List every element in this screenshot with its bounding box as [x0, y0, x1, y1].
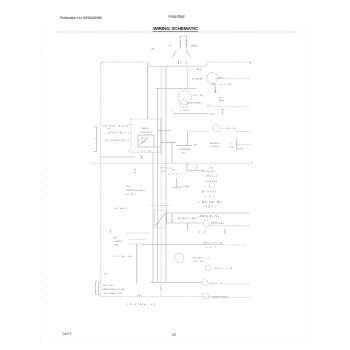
svg-text:+ (111) L: + (111) L	[180, 110, 191, 112]
ice maker dashed row 2	[128, 239, 146, 241]
svg-text:+ YR: + YR	[171, 170, 176, 172]
svg-text:WH-B4: WH-B4	[206, 171, 216, 173]
svg-text:TC-L+ 4: TC-L+ 4	[210, 282, 223, 284]
svg-text:W-4+4+: W-4+4+	[202, 191, 217, 193]
svg-text:F: F	[230, 143, 232, 145]
overload protector leads	[180, 36, 186, 49]
svg-text:WH + A 4: WH + A 4	[103, 284, 115, 287]
defrost thermostat arrow	[181, 185, 189, 187]
wire dashed run y78 right	[216, 77, 251, 79]
svg-text:WIRING SCHEMATIC: WIRING SCHEMATIC	[153, 26, 199, 32]
wire horizontal run y171	[187, 170, 202, 172]
svg-text:(5M)+ 4(+)+ W-L: (5M)+ 4(+)+ W-L	[211, 84, 234, 86]
condenser fan motor circle	[213, 124, 221, 132]
svg-text:+4+: +4+	[205, 186, 215, 188]
header rule dashed	[57, 31, 297, 33]
line cord strain relief right diagonal	[186, 50, 191, 58]
wire vertical segment D	[187, 223, 189, 230]
connector plug J1	[237, 139, 243, 151]
svg-text:4+4: 4+4	[104, 273, 108, 275]
svg-text:HARDWISE IT 4 WH: HARDWISE IT 4 WH	[103, 288, 126, 291]
wire vertical bus 2	[152, 153, 154, 283]
svg-text:+MP-3 DF 4-W: +MP-3 DF 4-W	[202, 243, 222, 245]
svg-text:NH-4: NH-4	[219, 100, 225, 102]
wire vertical segment B	[171, 213, 173, 223]
lamp circle right	[205, 265, 211, 271]
trim mark bottom dotted	[40, 340, 311, 342]
trim mark left dotted	[39, 29, 41, 341]
svg-text:+(4)+A+: +(4)+A+	[205, 180, 218, 183]
svg-text:+ T41: + T41	[208, 168, 214, 170]
wire dashed run y205	[150, 205, 170, 207]
svg-text:3 + (-4) 4 | 4: 3 + (-4) 4 | 4	[128, 151, 159, 153]
svg-text:+ DEFR-PRL 1: + DEFR-PRL 1	[105, 133, 128, 135]
svg-text:OH: OH	[194, 144, 198, 146]
wire vertical bus 1	[147, 66, 149, 119]
ice maker dashed row 3	[128, 243, 141, 245]
defrost control dashed box	[131, 119, 161, 153]
wire compressor lead with arrow	[215, 86, 217, 91]
svg-text:ACTAOS 4 WH: ACTAOS 4 WH	[178, 217, 196, 220]
svg-text:LLOMA+: LLOMA+	[210, 145, 221, 148]
svg-text:NR +: NR +	[126, 186, 132, 188]
wire horizontal run y223	[167, 222, 204, 224]
defrost thermostat stem	[173, 179, 182, 188]
wire horizontal run y282	[150, 282, 202, 284]
wire dashed run y146	[237, 144, 251, 146]
wire vertical bus 4	[165, 66, 167, 282]
wire vertical segment A	[171, 143, 173, 164]
wire dashed run y284	[209, 283, 251, 285]
wire top edge of cabinet	[103, 62, 250, 66]
wire dashed run y245	[224, 244, 247, 246]
wire horizontal run y244	[141, 244, 223, 246]
compressor motor circle bottom	[203, 293, 209, 299]
svg-text:+ 4L: + 4L	[168, 45, 173, 47]
wire vertical dashed drop	[187, 66, 189, 88]
lamp circle mid right	[203, 221, 209, 227]
svg-text:Publication No. 5995481966: Publication No. 5995481966	[60, 16, 102, 20]
door switch diagonal	[156, 214, 165, 226]
svg-text:COY/(-0): COY/(-0)	[160, 168, 172, 170]
wire arrow right mid	[202, 170, 204, 172]
wire vertical segment E	[196, 166, 198, 169]
svg-text:+11 11A+ 4A: +11 11A+ 4A	[112, 255, 132, 258]
compressor run winding circle	[178, 91, 192, 105]
svg-text:+ DEFROST: + DEFROST	[178, 149, 192, 151]
line cord lead right	[185, 60, 187, 65]
wire horizontal run y113	[173, 113, 209, 115]
line cord strain relief left diagonal	[172, 50, 177, 58]
svg-text:ITT-L: ITT-L	[210, 114, 216, 116]
title underline	[153, 30, 198, 32]
svg-text:m: m	[180, 62, 182, 64]
compressor relay arc	[207, 73, 218, 84]
svg-text:(-14 4+): (-14 4+)	[169, 174, 181, 176]
bracket pair top of bottom-right section	[199, 231, 225, 234]
svg-text:M: M	[134, 169, 136, 171]
svg-text:FRSHT5EF: FRSHT5EF	[169, 15, 187, 19]
defrost heater circle	[202, 280, 208, 286]
svg-text:MMWH-4: MMWH-4	[210, 143, 221, 145]
svg-text:+TU1-4: +TU1-4	[205, 176, 218, 178]
svg-text:PHL: PHL	[115, 244, 120, 246]
wire stub right	[224, 229, 226, 235]
svg-text:CONTROL: CONTROL	[140, 132, 154, 134]
overload tick marks	[179, 41, 188, 44]
wire mid cabinet dashed line	[91, 163, 251, 165]
wire vertical cabinet dashed	[160, 66, 162, 296]
wire tiny dash left of control box	[128, 124, 133, 126]
wire dashed run y131 right	[236, 130, 251, 132]
wire left cabinet edge dashed	[100, 65, 102, 297]
defrost timer switch diagonal	[140, 139, 161, 148]
svg-text:2-3: 2-3	[143, 142, 146, 144]
svg-text:W 2: W 2	[182, 153, 187, 155]
svg-text:]: ]	[128, 140, 129, 142]
bracket right of compressor	[223, 110, 225, 116]
svg-text:01/07: 01/07	[63, 332, 72, 336]
svg-text:2 M: 2 M	[137, 295, 141, 297]
svg-text:22: 22	[172, 333, 176, 337]
svg-text:4-+L 2: 4-+L 2	[206, 247, 217, 249]
svg-text:DEFR: DEFR	[142, 128, 148, 130]
compressor start winding circle	[180, 99, 188, 107]
line cord lead left	[178, 60, 180, 65]
svg-text:4A 1-2 L: 4A 1-2 L	[141, 137, 151, 140]
brace bottom left outer	[95, 282, 97, 294]
door switch dashed box	[155, 210, 167, 228]
svg-text:A-T W 4: A-T W 4	[126, 193, 137, 196]
trim mark right dotted	[310, 29, 312, 341]
svg-text:COMPRESSOR: COMPRESSOR	[210, 296, 228, 298]
svg-text:LOACHY: LOACHY	[114, 240, 124, 243]
svg-text:3-DM HMM-L: 3-DM HMM-L	[187, 103, 204, 105]
svg-text:+ W4+ 4W+ W4: + W4+ 4W+ W4	[199, 202, 222, 204]
svg-text:+4W4+: +4W4+	[203, 207, 217, 209]
svg-text:(+0): (+0)	[162, 171, 166, 173]
svg-text:VACUUM FAN: VACUUM FAN	[126, 189, 145, 192]
svg-text:POS: POS	[230, 147, 235, 149]
svg-text:4 WH-BK: 4 WH-BK	[192, 79, 204, 81]
svg-text:OHH-AA+: OHH-AA+	[211, 222, 225, 225]
wire dashed run y106.5 right	[207, 106, 250, 108]
svg-text:+W: +W	[151, 49, 154, 51]
svg-text:AH !: AH !	[114, 236, 118, 239]
evaporator fan motor circle	[175, 253, 184, 262]
svg-text:+E THA +4: +E THA +4	[114, 207, 128, 210]
wire horizontal run y88	[156, 88, 197, 90]
svg-text:+4+: +4+	[205, 196, 215, 198]
svg-text:+ RD-WH L+4: + RD-WH L+4	[190, 258, 210, 260]
ice maker dashed row 1	[127, 232, 149, 234]
svg-text:M: M	[134, 172, 136, 174]
wire stub bottom	[160, 287, 162, 291]
svg-text:+: +	[199, 91, 201, 93]
wire horizontal run y157	[101, 156, 135, 158]
svg-text:+CW(4) W+ T4+: +CW(4) W+ T4+	[198, 216, 220, 218]
brace left mid	[94, 127, 97, 152]
wire stub above ice maker	[110, 230, 112, 234]
wire horizontal run y131 dashed	[188, 131, 211, 133]
node top-right terminal dot	[250, 62, 251, 63]
node lead terminal dot	[215, 91, 216, 92]
wire vertical segment C	[187, 132, 189, 146]
wire stub from control box	[157, 130, 172, 132]
defrost timer inner box	[138, 135, 154, 147]
wire dashed run y297.5	[209, 297, 250, 299]
wire ice maker drop	[136, 244, 138, 284]
svg-text:RD DEFR+RN 1: RD DEFR+RN 1	[106, 140, 129, 142]
svg-text:F'M W'TATA + 4W: F'M W'TATA + 4W	[127, 303, 155, 306]
svg-text:]: ]	[128, 133, 129, 135]
svg-text:RH TUGH A 4-W: RH TUGH A 4-W	[104, 292, 122, 295]
wire horizontal run y145	[176, 145, 192, 147]
svg-text:+(M)+W: +(M)+W	[223, 128, 237, 130]
overload terminal dots	[179, 35, 182, 38]
wire vertical drop to y171	[186, 163, 188, 171]
brace bottom left inner	[98, 283, 100, 295]
wire vertical bus 3	[157, 89, 159, 283]
svg-text:WH/BK: WH/BK	[191, 46, 198, 48]
wire horizontal run y213	[167, 212, 251, 214]
wire bottom cabinet edge dashed	[101, 296, 210, 298]
svg-text:(M): (M)	[219, 78, 222, 80]
wire end hook y157	[141, 156, 143, 159]
svg-text:ML-M+: ML-M+	[194, 261, 205, 263]
svg-text:BK-4: BK-4	[197, 69, 202, 71]
svg-text:2: 2	[173, 110, 175, 112]
svg-text:DS (M): DS (M)	[193, 95, 203, 97]
wire dashed run y225.8	[211, 225, 251, 227]
wire top-left corner	[101, 62, 103, 65]
svg-text:+2M-4 L+2 W: +2M-4 L+2 W	[213, 268, 232, 270]
